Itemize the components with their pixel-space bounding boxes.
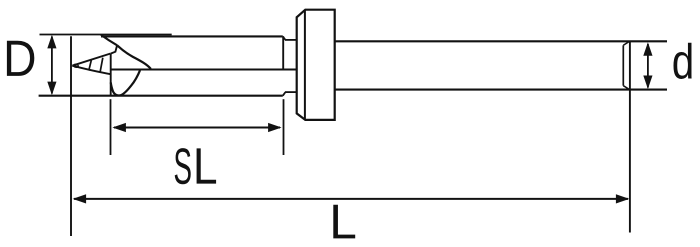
d dimension line — [647, 44, 649, 88]
L arrowhead right — [616, 194, 630, 203]
cone hatch line 1 — [89, 60, 92, 70]
rivet body left face / L left extension line — [70, 36, 72, 236]
mandrel stem line through body — [111, 68, 297, 70]
rivet body right end face — [282, 36, 284, 69]
mandrel head upper bulge arc — [117, 45, 151, 69]
mandrel stem end face / L right extension line — [629, 41, 631, 232]
flange chamfer ridge line — [304, 10, 306, 120]
SL right extension line — [283, 99, 285, 155]
d arrowhead up — [643, 42, 652, 56]
D arrowhead down — [47, 82, 56, 96]
stem end chamfer bottom slant — [623, 86, 629, 90]
neck bottom line — [285, 91, 297, 93]
mandrel head flute notch — [111, 45, 117, 53]
stem end chamfer top slant — [623, 42, 629, 46]
neck chamfer top — [283, 36, 286, 40]
SL dimension line — [114, 127, 280, 129]
rivet body bottom line (also D bottom extension) — [39, 95, 283, 97]
label D — [7, 41, 34, 76]
mandrel drill-point cone bottom edge — [72, 66, 110, 75]
cone hatch line 2 — [100, 58, 103, 72]
label d — [673, 43, 691, 79]
D dimension line — [51, 37, 53, 94]
SL arrowhead left — [112, 123, 126, 132]
d arrowhead down — [643, 76, 652, 90]
neck chamfer bottom — [283, 92, 286, 96]
L arrowhead left — [73, 194, 87, 203]
D dimension top extension line — [40, 34, 172, 36]
stem end chamfer ridge — [622, 45, 624, 85]
label L of SL — [197, 148, 216, 183]
mandrel stem bottom line (with d extension) — [335, 89, 667, 91]
SL arrowhead right — [268, 123, 282, 132]
flange outline — [297, 10, 335, 120]
L dimension line — [74, 198, 628, 200]
label L — [333, 205, 355, 239]
SL left extension line — [110, 99, 112, 155]
mandrel drill-point cone top edge — [72, 54, 110, 66]
neck top line — [285, 39, 297, 41]
mandrel head lower bulge arc — [111, 70, 140, 95]
mandrel stem top line (with d extension) — [335, 40, 667, 42]
mandrel head upper slant — [101, 35, 117, 45]
rivet body top line — [101, 35, 283, 37]
cone apex oval — [73, 64, 78, 68]
D arrowhead up — [47, 35, 56, 49]
mandrel head flute vertical line — [110, 54, 112, 96]
label S of SL — [175, 148, 191, 184]
